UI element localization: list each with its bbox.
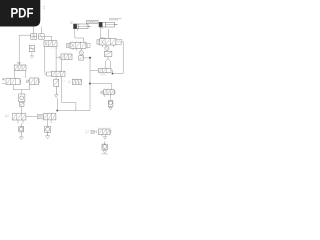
junction dot B — [89, 83, 91, 85]
wire pilot cluster to left column valve 1S1 — [19, 35, 31, 65]
wire x=57.3 from exhaust chain — [56, 98, 58, 110]
wire 1V4 to junction — [84, 57, 90, 59]
pilot valve 0V2 — [39, 34, 45, 39]
vertical bus x=90 — [89, 58, 91, 111]
wire 2S1 right to corner — [111, 69, 112, 71]
cylinder 1A ports — [75, 29, 84, 44]
valve 1V2 (5/2 under cylinder 1) — [67, 42, 90, 48]
wire 1S1 right port down — [25, 71, 27, 79]
flow control 1V8 under 1S5 — [45, 120, 52, 139]
wire 2V3 Y-stem — [106, 45, 111, 61]
PDF badge — [0, 0, 40, 27]
wire 1V4 ports — [80, 48, 82, 55]
wire from badge to pilot valve 0V2 — [41, 27, 43, 34]
wire 1V1 right port down (long line to junction) — [55, 46, 57, 79]
junction dot C — [56, 110, 58, 112]
valve 1S3 (roller 3/2) — [26, 77, 39, 85]
flow control 2V3 (under 2V1) — [104, 46, 112, 56]
cylinder 2A — [99, 22, 118, 27]
tiny label left of 1V4 — [65, 56, 69, 57]
ticks below 2S1 — [100, 74, 108, 75]
wire pilot to valve 1V1 — [44, 36, 51, 40]
wire from badge to pilot valve 0V1 — [33, 27, 35, 34]
exhaust under 2S2 — [102, 134, 107, 139]
valve 1V1 (5/2) — [44, 41, 57, 47]
wire 1V1 left port down to 1V3 pilot — [44, 46, 46, 72]
cylinder 1A — [74, 24, 91, 29]
wire 1S4 to 1S5 — [26, 116, 37, 118]
wire 2V2 to right and down — [112, 42, 123, 74]
wire junction B to valve 2V4 — [90, 84, 112, 90]
label left of 2S2 — [85, 131, 89, 133]
bus wire y=110.5 — [57, 110, 90, 112]
junction dot A — [89, 57, 91, 59]
valve 2V1 (5/2 under cylinder 2) — [97, 39, 122, 45]
valve 1S4 — [5, 114, 26, 120]
wire 2S1 ports up — [106, 61, 111, 68]
exhaust arrow under 0S1 — [30, 52, 33, 58]
wire joining 1S2/1S3 outputs — [13, 85, 29, 94]
shuttle valve 1V5 — [19, 94, 25, 102]
gray text label above cylinder 2 — [109, 18, 122, 20]
svg-text:PDF: PDF — [11, 4, 34, 20]
label above cylinder 1 — [70, 22, 73, 23]
valve 1S1 (top of left column) — [14, 62, 26, 70]
ticks above 1S1 — [16, 63, 25, 66]
ticks above 1S4 — [14, 111, 25, 114]
sensor label box b2 — [93, 21, 98, 24]
flow control 1V4 (under 1V2) — [79, 51, 84, 60]
sensor label box b1 — [86, 21, 92, 24]
ticks above 1V9 — [62, 52, 70, 55]
junction dot at end — [112, 73, 114, 75]
wire down to valve 1S4 — [21, 106, 23, 114]
ticks above 1V2 — [73, 40, 85, 43]
valve 2V5 (with CO label) — [69, 79, 82, 84]
valve 2S1 — [99, 68, 112, 72]
valve 1S5 — [37, 114, 56, 120]
valve 1V9 (middle, with CO label) — [59, 54, 72, 60]
flow control under 2V4 — [105, 95, 113, 110]
port ticks left of 2V5 — [63, 80, 65, 81]
ticks above 2V1 — [102, 36, 114, 39]
flow control 1V7 under 1S4 — [18, 120, 24, 140]
exhaust valve 0S1 — [29, 46, 34, 52]
valve 1S2 (push button 3/2) — [2, 77, 21, 85]
ticks above 2S1 — [101, 65, 108, 68]
ticks above 2S2 — [100, 127, 110, 130]
stubs below 1V2 — [73, 48, 77, 50]
check box 1V6 — [19, 103, 24, 107]
valve 2S2 (bottom right) — [91, 129, 111, 134]
ticks above 1V3 — [53, 69, 64, 72]
ticks above 1V1 — [46, 40, 56, 41]
title text remnant right of badge — [43, 7, 46, 8]
wire 1S1 left port down — [14, 71, 16, 79]
ticks above 1S5 — [45, 111, 53, 114]
valve 1V3 — [44, 71, 65, 76]
flow box 1V10 under 1V3 — [54, 79, 59, 97]
cylinder 2A ports — [100, 27, 108, 40]
wire bus to 1V9 — [56, 57, 61, 59]
flow control 2V6 under 2S2 — [102, 142, 108, 154]
ticks above 2V4 — [105, 87, 112, 90]
pilot valve 0V1 — [31, 34, 37, 39]
valve 2V4 (roller valve right) — [101, 90, 116, 95]
small text under label boxes — [86, 24, 89, 25]
port labels below 1V1 — [51, 47, 58, 49]
stubs below 2V1 — [102, 45, 113, 47]
branch wire to valve 2S1 left port — [90, 69, 99, 71]
ticks above 2V5 — [73, 77, 81, 80]
wire from valve 1V3 area down and right — [62, 60, 76, 111]
